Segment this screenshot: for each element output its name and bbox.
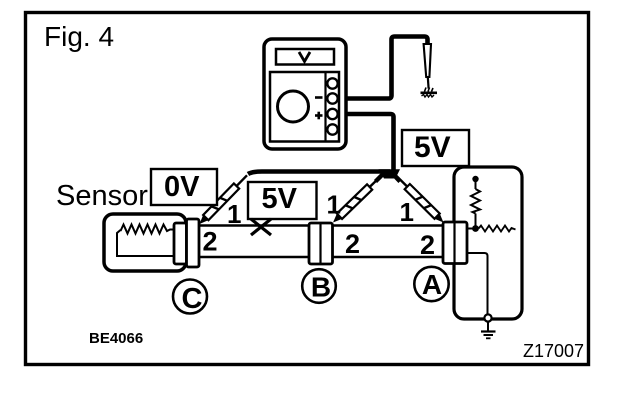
connector B	[309, 223, 333, 264]
svg-text:1: 1	[327, 190, 341, 220]
open-circuit X mark	[251, 219, 271, 235]
voltmeter negative terminal label	[315, 96, 323, 99]
svg-text:BE4066: BE4066	[89, 330, 143, 347]
voltmeter display window	[276, 49, 334, 65]
svg-text:2: 2	[203, 227, 218, 257]
connector designator B	[302, 269, 336, 303]
voltmeter V function label	[299, 52, 310, 62]
value label 0V (at connector C)	[151, 169, 217, 205]
svg-text:1: 1	[400, 197, 414, 227]
ECU box	[454, 167, 522, 319]
resistor: ECU series (horizontal zigzag)	[479, 226, 516, 232]
test probe at connector A pin 1	[393, 173, 446, 225]
voltmeter terminal jacks	[327, 78, 337, 134]
svg-text:0V: 0V	[164, 171, 200, 203]
svg-text:2: 2	[420, 230, 435, 260]
voltmeter V1 body	[264, 39, 346, 149]
svg-text:2: 2	[345, 229, 360, 259]
resistor: ECU pull-up (vertical zigzag)	[471, 189, 480, 227]
wire: ECU pin 2 to ground	[467, 253, 488, 315]
svg-text:Fig. 4: Fig. 4	[44, 21, 114, 52]
connector C (harness side shell)	[187, 219, 200, 267]
wire: harness top line (pin 1 net)	[197, 224, 443, 226]
svg-text:1: 1	[227, 199, 241, 229]
wire: voltmeter negative lead	[346, 37, 428, 99]
ground contact (probe touch point)	[421, 88, 438, 98]
connector A	[443, 222, 467, 264]
node: probe junction above connectors B and A	[376, 169, 401, 181]
connector designator A	[414, 267, 448, 301]
test probe at connector B pin 1	[330, 173, 383, 225]
resistor: sensor element (zigzag)	[117, 225, 176, 257]
voltmeter positive terminal label	[315, 112, 323, 120]
svg-text:5V: 5V	[414, 131, 451, 164]
wire: positive lead run to connector C probe	[248, 172, 390, 175]
svg-text:A: A	[422, 269, 442, 300]
probe: negative lead test probe	[424, 44, 431, 89]
voltmeter dial	[278, 91, 309, 122]
connector C (sensor side shell)	[174, 223, 187, 264]
value label 5V (at connector B)	[248, 182, 317, 219]
voltmeter front panel	[270, 72, 339, 142]
node: junction of pull-up and signal line	[467, 225, 479, 232]
value label 5V (at connector A)	[402, 130, 469, 166]
wire: harness bottom line (pin 2 net)	[190, 256, 443, 258]
svg-text:C: C	[182, 283, 203, 315]
sensor body	[104, 214, 186, 271]
node: 5V supply dot inside ECU	[472, 176, 478, 189]
svg-text:B: B	[311, 272, 331, 303]
test probe at connector C pin 1	[197, 173, 250, 227]
node: ground junction on ECU case	[484, 314, 491, 331]
connector designator C	[173, 280, 207, 316]
svg-text:5V: 5V	[262, 183, 298, 215]
ground (ECU)	[481, 332, 496, 339]
svg-text:Sensor: Sensor	[56, 180, 148, 212]
svg-text:Z17007: Z17007	[523, 341, 584, 361]
wire: voltmeter positive lead (down from meter)	[346, 114, 394, 177]
